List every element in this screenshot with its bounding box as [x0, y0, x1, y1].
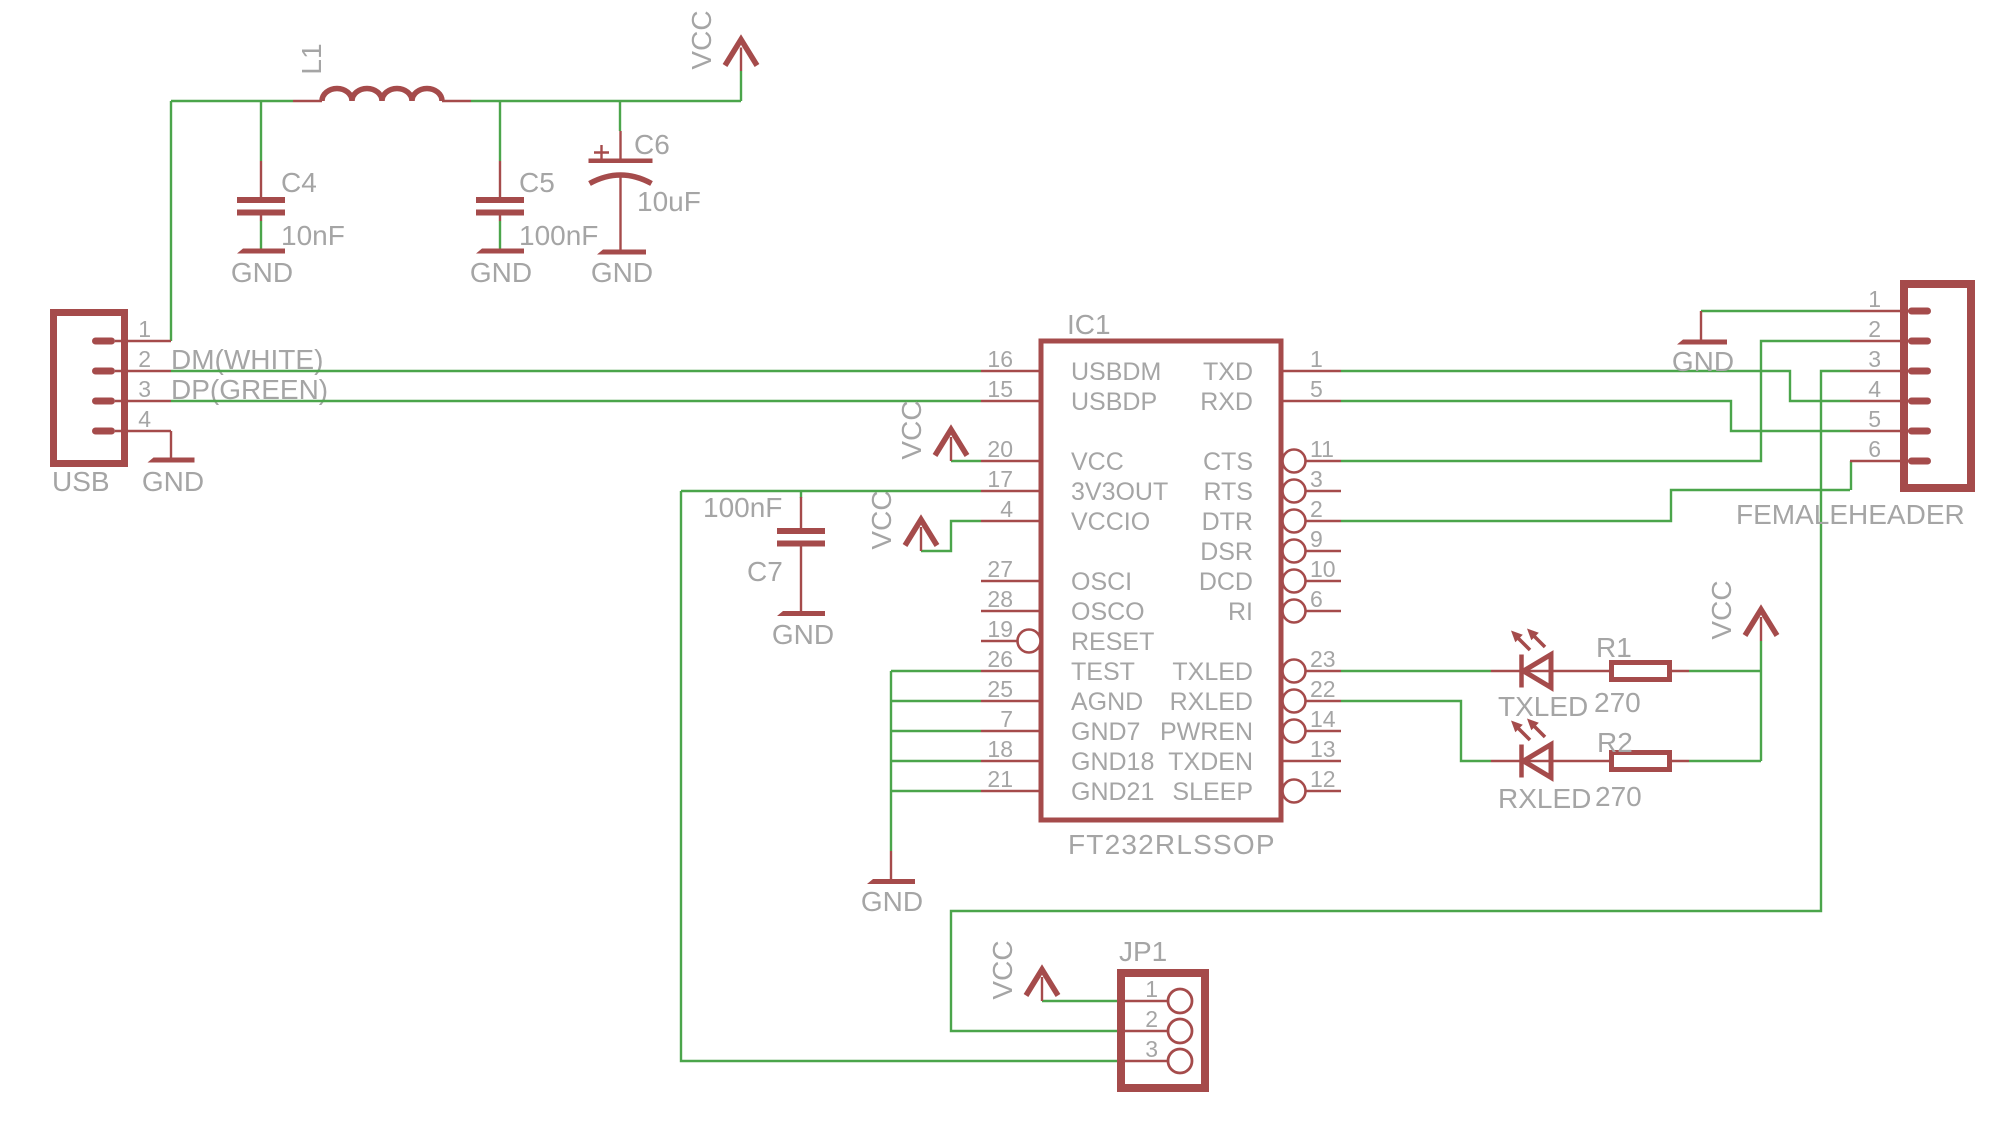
wire GND21 to ground bus: [891, 790, 981, 792]
svg-text:TXLED: TXLED: [1172, 658, 1253, 686]
pad USB pin 1: [92, 338, 115, 345]
svg-text:C7: C7: [747, 556, 783, 587]
svg-text:3: 3: [1868, 346, 1881, 372]
svg-text:12: 12: [1310, 766, 1336, 792]
svg-text:C5: C5: [519, 167, 555, 198]
svg-text:R2: R2: [1597, 727, 1633, 758]
connector USB body: [54, 313, 125, 464]
wire CTS to header pin 2: [1341, 341, 1850, 461]
pin 2 JP1: [1121, 1006, 1192, 1043]
wire DTR to header pin 6: [1341, 490, 1850, 521]
svg-text:FEMALEHEADER: FEMALEHEADER: [1736, 499, 1965, 530]
wire C5 to ground: [499, 221, 501, 249]
pin USB 2: [115, 346, 171, 372]
wire TEST to ground bus: [891, 670, 981, 672]
ground under C6: [591, 250, 653, 289]
pin 28 OSCO IC1 left: [981, 586, 1145, 626]
wire RXLED step to LED2: [1341, 701, 1491, 761]
pin 27 OSCI IC1 left: [981, 556, 1132, 596]
svg-text:19: 19: [987, 616, 1013, 642]
capacitor C6 polarized: [589, 101, 653, 250]
LED RXLED: [1491, 719, 1609, 778]
svg-text:DTR: DTR: [1202, 508, 1253, 536]
svg-text:5: 5: [1868, 406, 1881, 432]
svg-text:1: 1: [1145, 976, 1158, 1002]
wire GND18 to ground bus: [891, 760, 981, 762]
svg-text:TXLED: TXLED: [1498, 691, 1588, 722]
pin 16 USBDM IC1 left: [981, 346, 1161, 386]
pin 1 TXD IC1 right: [1203, 346, 1341, 386]
svg-text:18: 18: [987, 736, 1013, 762]
svg-text:RXLED: RXLED: [1170, 688, 1253, 716]
pin 1 JP1: [1121, 976, 1192, 1013]
wire DTR riser at header pin 6: [1850, 461, 1852, 490]
svg-text:5: 5: [1310, 376, 1323, 402]
pin 7 GND7 IC1 left: [981, 706, 1140, 746]
pin 17 3V3OUT IC1 left: [981, 466, 1168, 506]
pin 5 RXD IC1 right: [1200, 376, 1341, 416]
svg-text:10nF: 10nF: [281, 220, 345, 251]
svg-text:VCCIO: VCCIO: [1071, 508, 1150, 536]
power VCC symbol at VCCIO: [905, 520, 937, 552]
svg-text:7: 7: [1000, 706, 1013, 732]
power VCC symbol at pin 20: [935, 430, 967, 462]
svg-text:TXDEN: TXDEN: [1168, 748, 1253, 776]
svg-text:VCC: VCC: [1071, 448, 1124, 476]
svg-text:3V3OUT: 3V3OUT: [1071, 478, 1168, 506]
svg-text:RESET: RESET: [1071, 628, 1154, 656]
svg-text:AGND: AGND: [1071, 688, 1143, 716]
svg-text:C6: C6: [634, 129, 670, 160]
pin 19 RESET IC1 left: [981, 616, 1154, 656]
pin 9 DSR IC1 right: [1200, 526, 1341, 566]
svg-text:23: 23: [1310, 646, 1336, 672]
svg-text:GND: GND: [142, 466, 204, 497]
wire R1 to VCC: [1689, 670, 1761, 672]
pin USB 1: [115, 316, 171, 342]
svg-text:DSR: DSR: [1200, 538, 1253, 566]
wire USB pin1 to rail: [170, 101, 172, 341]
svg-text:3: 3: [138, 376, 151, 402]
connector FEMALEHEADER body: [1904, 284, 1971, 488]
inductor L1: [293, 89, 471, 102]
svg-text:4: 4: [1000, 496, 1013, 522]
power VCC symbol top: [725, 40, 757, 102]
svg-text:GND: GND: [861, 886, 923, 917]
svg-text:28: 28: [987, 586, 1013, 612]
pin 3 JP1: [1121, 1036, 1192, 1073]
svg-text:270: 270: [1595, 781, 1642, 812]
svg-text:GND: GND: [231, 257, 293, 288]
svg-text:RXD: RXD: [1200, 388, 1253, 416]
wire GND7 to ground bus: [891, 730, 981, 732]
pin 13 TXDEN IC1 right: [1168, 736, 1341, 776]
svg-text:GND: GND: [1672, 346, 1734, 377]
ground under C5: [470, 249, 532, 289]
svg-text:21: 21: [987, 766, 1013, 792]
svg-text:GND: GND: [470, 257, 532, 288]
pin 12 SLEEP IC1 right: [1172, 766, 1341, 806]
wire VCC to JP1 pin 1: [1042, 1000, 1117, 1002]
svg-text:3: 3: [1145, 1036, 1158, 1062]
svg-text:RTS: RTS: [1203, 478, 1253, 506]
pin 4 VCCIO IC1 left: [981, 496, 1150, 536]
pin 10 DCD IC1 right: [1199, 556, 1341, 596]
svg-text:6: 6: [1868, 436, 1881, 462]
LED TXLED: [1491, 629, 1609, 688]
svg-text:4: 4: [1868, 376, 1881, 402]
pin 2 FEMALEHEADER: [1850, 316, 1931, 345]
svg-text:GND7: GND7: [1071, 718, 1140, 746]
pad USB pin 3: [92, 398, 115, 405]
svg-text:USB: USB: [52, 466, 110, 497]
svg-text:GND: GND: [591, 257, 653, 288]
svg-text:OSCI: OSCI: [1071, 568, 1132, 596]
svg-text:VCC: VCC: [866, 490, 897, 549]
svg-text:VCC: VCC: [686, 10, 717, 69]
svg-text:TEST: TEST: [1071, 658, 1135, 686]
wire 3V3OUT net: [681, 490, 981, 492]
svg-text:25: 25: [987, 676, 1013, 702]
pin 14 PWREN IC1 right: [1160, 706, 1341, 746]
pin 26 TEST IC1 left: [981, 646, 1135, 686]
ground under C4: [231, 249, 293, 289]
svg-text:10uF: 10uF: [637, 186, 701, 217]
pin 6 FEMALEHEADER: [1850, 436, 1931, 465]
svg-text:9: 9: [1310, 526, 1323, 552]
svg-text:10: 10: [1310, 556, 1336, 582]
svg-text:JP1: JP1: [1119, 936, 1167, 967]
svg-text:27: 27: [987, 556, 1013, 582]
resistor R2: [1612, 753, 1690, 770]
svg-text:VCC: VCC: [896, 400, 927, 459]
svg-text:2: 2: [1868, 316, 1881, 342]
svg-text:1: 1: [1868, 286, 1881, 312]
wire ground bus vertical: [890, 671, 892, 851]
pin 4 FEMALEHEADER: [1850, 376, 1931, 405]
svg-text:GND18: GND18: [1071, 748, 1154, 776]
wire DM USB pin2 to IC USBDM: [171, 370, 981, 372]
pin 3 FEMALEHEADER: [1850, 346, 1931, 375]
svg-text:RXLED: RXLED: [1498, 783, 1591, 814]
svg-text:OSCO: OSCO: [1071, 598, 1145, 626]
pin USB 3: [115, 376, 171, 402]
svg-text:USBDP: USBDP: [1071, 388, 1157, 416]
wire header pin 1 to ground: [1701, 310, 1850, 312]
wire DP USB pin3 to IC USBDP: [171, 400, 981, 402]
wire VCC rail right segment: [471, 100, 741, 102]
wire VCC to IC pin 20: [951, 460, 981, 462]
svg-text:26: 26: [987, 646, 1013, 672]
pin 6 RI IC1 right: [1228, 586, 1341, 626]
capacitor C5: [476, 101, 524, 221]
pin 23 TXLED IC1 right: [1172, 646, 1341, 686]
pin 22 RXLED IC1 right: [1170, 676, 1341, 716]
pin 21 GND21 IC1 left: [981, 766, 1154, 806]
power VCC symbol for LEDs: [1745, 610, 1777, 642]
svg-text:USBDM: USBDM: [1071, 358, 1161, 386]
wire 3V3OUT down to JP1 pin 3: [681, 491, 1117, 1061]
svg-text:11: 11: [1310, 436, 1334, 462]
svg-text:22: 22: [1310, 676, 1336, 702]
svg-text:DCD: DCD: [1199, 568, 1253, 596]
svg-text:16: 16: [987, 346, 1013, 372]
wire VCC rail left segment: [171, 100, 293, 102]
svg-text:100nF: 100nF: [519, 220, 598, 251]
wire RXD to header pin 5: [1341, 401, 1850, 431]
capacitor C7: [777, 491, 825, 611]
pad USB pin 4: [92, 428, 115, 435]
svg-text:1: 1: [138, 316, 151, 342]
wire TXLED to LED1: [1341, 670, 1491, 672]
pin 18 GND18 IC1 left: [981, 736, 1154, 776]
wire R2 to VCC vertical: [1689, 760, 1761, 762]
svg-text:VCC: VCC: [1706, 580, 1737, 639]
resistor R1: [1612, 663, 1690, 680]
svg-text:R1: R1: [1596, 632, 1632, 663]
wire header pin 3 to JP1 pin 2: [951, 371, 1850, 1031]
pin 15 USBDP IC1 left: [981, 376, 1157, 416]
svg-text:2: 2: [138, 346, 151, 372]
svg-text:IC1: IC1: [1067, 309, 1111, 340]
svg-text:15: 15: [987, 376, 1013, 402]
svg-text:L1: L1: [296, 43, 327, 74]
wire VCC vertical for LEDs: [1760, 641, 1762, 761]
svg-text:PWREN: PWREN: [1160, 718, 1253, 746]
svg-text:C4: C4: [281, 167, 317, 198]
svg-text:FT232RLSSOP: FT232RLSSOP: [1068, 829, 1276, 860]
pin USB 4: [115, 406, 171, 432]
svg-text:14: 14: [1310, 706, 1336, 732]
svg-text:2: 2: [1310, 496, 1323, 522]
svg-text:270: 270: [1594, 687, 1641, 718]
power VCC symbol at JP1: [1026, 970, 1058, 1002]
ground at USB pin 4: [142, 431, 204, 497]
wire C4 to ground: [260, 221, 262, 249]
svg-text:3: 3: [1310, 466, 1323, 492]
ground at header pin 1: [1672, 311, 1734, 377]
pin 3 RTS IC1 right: [1203, 466, 1341, 506]
svg-text:13: 13: [1310, 736, 1336, 762]
wire AGND to ground bus: [891, 700, 981, 702]
pin 25 AGND IC1 left: [981, 676, 1143, 716]
svg-text:GND: GND: [772, 619, 834, 650]
svg-text:RI: RI: [1228, 598, 1253, 626]
pad USB pin 2: [92, 368, 115, 375]
ground under C7: [772, 611, 834, 650]
wire TXD to header pin 4: [1341, 371, 1850, 401]
connector JP1 body: [1121, 973, 1205, 1088]
wire VCCIO step: [921, 521, 981, 551]
svg-text:SLEEP: SLEEP: [1172, 778, 1253, 806]
svg-text:TXD: TXD: [1203, 358, 1253, 386]
svg-text:2: 2: [1145, 1006, 1158, 1032]
svg-text:GND21: GND21: [1071, 778, 1154, 806]
svg-text:VCC: VCC: [987, 940, 1018, 999]
pin 2 DTR IC1 right: [1202, 496, 1341, 536]
svg-text:1: 1: [1310, 346, 1323, 372]
capacitor C4: [237, 101, 285, 221]
svg-text:4: 4: [138, 406, 151, 432]
pin 1 FEMALEHEADER: [1850, 286, 1931, 315]
pin 11 CTS IC1 right: [1203, 436, 1341, 476]
svg-text:CTS: CTS: [1203, 448, 1253, 476]
svg-text:6: 6: [1310, 586, 1323, 612]
svg-text:100nF: 100nF: [703, 492, 782, 523]
pin 5 FEMALEHEADER: [1850, 406, 1931, 435]
pin 20 VCC IC1 left: [981, 436, 1124, 476]
IC IC1 FT232RL body: [1041, 341, 1281, 820]
svg-text:20: 20: [987, 436, 1013, 462]
ground under IC1: [861, 851, 923, 917]
svg-text:17: 17: [987, 466, 1013, 492]
